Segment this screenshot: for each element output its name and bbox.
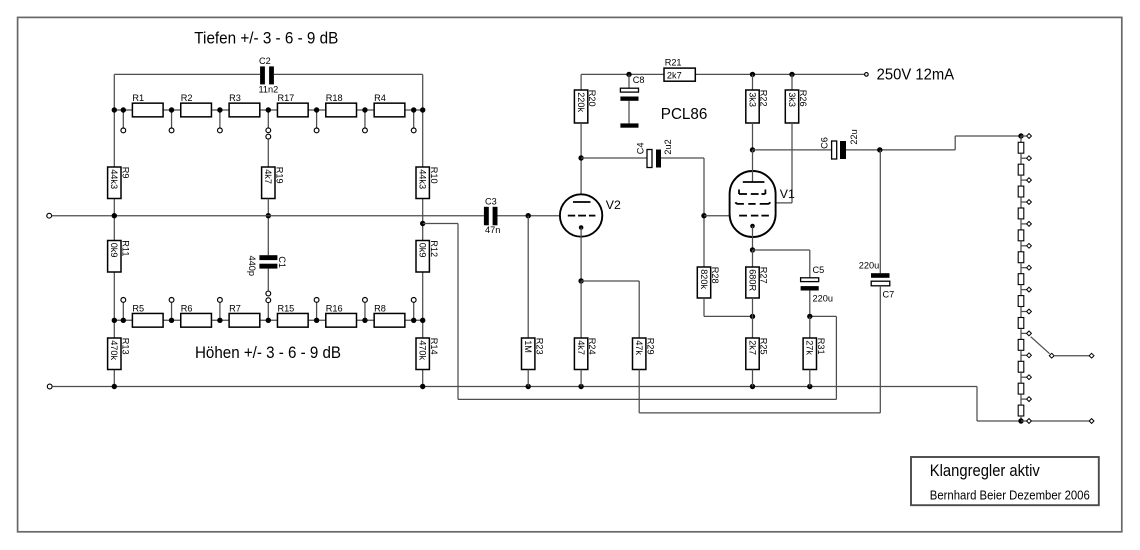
svg-text:R14: R14: [429, 338, 439, 355]
svg-text:R27: R27: [759, 267, 769, 284]
svg-text:C7: C7: [883, 290, 895, 300]
svg-text:440p: 440p: [247, 256, 257, 276]
svg-text:220u: 220u: [859, 261, 879, 271]
svg-text:R7: R7: [229, 304, 241, 314]
svg-text:820k: 820k: [699, 269, 709, 289]
svg-text:R12: R12: [429, 240, 439, 257]
svg-text:PCL86: PCL86: [661, 106, 708, 123]
svg-text:220u: 220u: [813, 294, 833, 304]
svg-text:R23: R23: [534, 338, 544, 355]
svg-text:3k3: 3k3: [787, 92, 797, 107]
svg-text:44k3: 44k3: [418, 169, 428, 189]
svg-text:0k9: 0k9: [418, 243, 428, 258]
svg-text:Bernhard Beier Dezember 2006: Bernhard Beier Dezember 2006: [930, 488, 1090, 502]
svg-text:R16: R16: [326, 304, 343, 314]
svg-text:Höhen +/- 3 - 6 - 9 dB: Höhen +/- 3 - 6 - 9 dB: [195, 344, 341, 362]
svg-text:Klangregler aktiv: Klangregler aktiv: [930, 462, 1041, 480]
svg-text:3k3: 3k3: [747, 92, 757, 107]
svg-text:2k7: 2k7: [747, 340, 757, 355]
svg-text:27k: 27k: [805, 340, 815, 355]
svg-text:4k7: 4k7: [263, 169, 273, 184]
svg-text:11n2: 11n2: [259, 84, 279, 94]
svg-text:R3: R3: [229, 93, 241, 103]
svg-text:R5: R5: [132, 304, 144, 314]
svg-text:R4: R4: [374, 93, 386, 103]
svg-text:0k9: 0k9: [109, 243, 119, 258]
svg-text:470k: 470k: [109, 340, 119, 360]
svg-text:R6: R6: [181, 304, 193, 314]
svg-text:C8: C8: [633, 75, 645, 85]
svg-text:R20: R20: [587, 90, 597, 107]
svg-text:4k7: 4k7: [576, 340, 586, 355]
svg-text:250V 12mA: 250V 12mA: [877, 67, 955, 84]
svg-text:R9: R9: [120, 167, 130, 179]
svg-text:47n: 47n: [485, 225, 500, 235]
svg-text:C4: C4: [635, 143, 645, 155]
svg-text:R1: R1: [132, 93, 144, 103]
svg-text:R18: R18: [326, 93, 343, 103]
svg-text:2k7: 2k7: [667, 71, 682, 81]
svg-text:R13: R13: [120, 338, 130, 355]
svg-text:R8: R8: [374, 304, 386, 314]
svg-text:C6: C6: [820, 137, 830, 149]
svg-text:R25: R25: [759, 338, 769, 355]
svg-text:R19: R19: [274, 167, 284, 184]
svg-text:C3: C3: [485, 197, 497, 207]
svg-text:R29: R29: [645, 338, 655, 355]
svg-text:2u2: 2u2: [663, 139, 673, 154]
svg-text:R15: R15: [277, 304, 294, 314]
svg-text:R2: R2: [181, 93, 193, 103]
svg-text:R11: R11: [120, 240, 130, 256]
svg-text:680R: 680R: [747, 269, 757, 291]
svg-text:C1: C1: [277, 256, 287, 268]
svg-text:R28: R28: [710, 267, 720, 284]
svg-text:R17: R17: [277, 93, 294, 103]
svg-text:V1: V1: [780, 187, 795, 201]
svg-text:470k: 470k: [418, 340, 428, 360]
svg-text:22u: 22u: [849, 129, 859, 144]
svg-text:R21: R21: [665, 57, 682, 67]
svg-text:R31: R31: [816, 338, 826, 355]
svg-text:47k: 47k: [634, 340, 644, 355]
svg-text:R24: R24: [587, 338, 597, 355]
svg-text:C2: C2: [259, 56, 271, 66]
svg-text:R26: R26: [798, 90, 808, 107]
svg-text:1M: 1M: [523, 340, 533, 353]
svg-text:C5: C5: [813, 265, 825, 275]
svg-text:Tiefen +/- 3 - 6 - 9 dB: Tiefen +/- 3 - 6 - 9 dB: [194, 30, 338, 48]
svg-text:R10: R10: [429, 167, 439, 184]
svg-text:R22: R22: [759, 90, 769, 107]
svg-text:V2: V2: [606, 198, 621, 212]
svg-text:220k: 220k: [576, 92, 586, 112]
svg-text:44k3: 44k3: [109, 169, 119, 189]
